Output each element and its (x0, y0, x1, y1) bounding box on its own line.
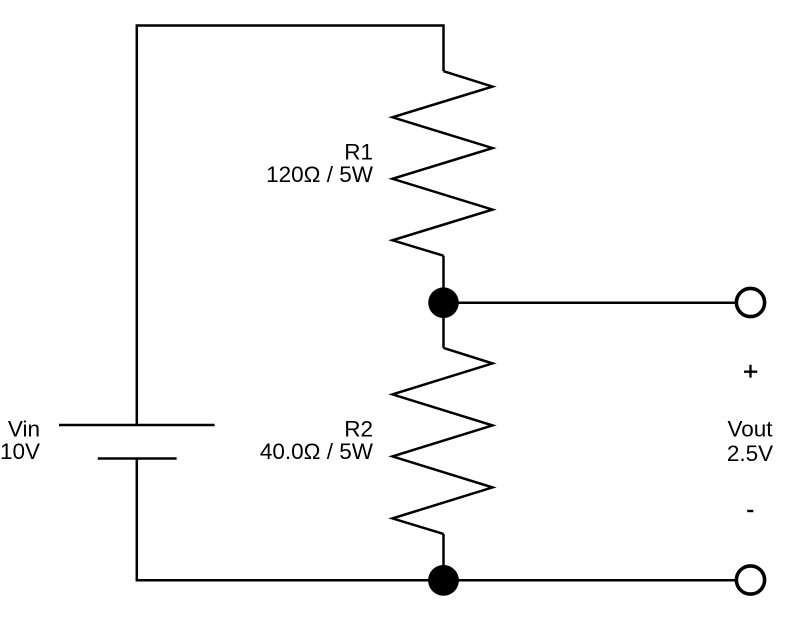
svg-text:40.0Ω / 5W: 40.0Ω / 5W (260, 439, 374, 464)
svg-text:R2: R2 (344, 417, 373, 442)
svg-text:120Ω / 5W: 120Ω / 5W (266, 162, 374, 187)
wire: R1 top lead (442, 24, 445, 71)
wire: R1 bottom lead to middle node (442, 256, 445, 303)
wire: output top horizontal from middle node to + terminal (444, 302, 738, 305)
terminal: output - open circle (736, 566, 764, 594)
svg-text:R1: R1 (344, 139, 373, 164)
wire: bottom rail from battery to - terminal (137, 579, 737, 582)
polarity mark: plus sign at + terminal (744, 365, 757, 378)
svg-text:10V: 10V (0, 439, 40, 464)
battery B1 positive plate (long) (59, 424, 215, 427)
wire: top horizontal from top-left corner to R1 top lead (136, 24, 444, 27)
svg-text:Vout: Vout (727, 417, 773, 442)
junction dot: middle node (428, 287, 459, 318)
wire: R2 top lead from middle node (442, 303, 445, 348)
wire: left vertical from battery positive up to top-left corner (136, 26, 139, 426)
wire: battery negative lead down to bottom rail (136, 459, 139, 582)
resistor R1 zigzag body (393, 71, 493, 256)
battery B1 negative plate (short) (98, 457, 177, 460)
svg-text:Vin: Vin (8, 417, 40, 442)
wire: R2 bottom lead to bottom node (442, 534, 445, 580)
terminal: output + open circle (736, 288, 764, 316)
svg-text:2.5V: 2.5V (727, 441, 773, 466)
polarity mark: minus sign at - terminal (747, 510, 753, 512)
junction dot: bottom node (428, 565, 459, 596)
resistor R2 zigzag body (393, 348, 493, 534)
